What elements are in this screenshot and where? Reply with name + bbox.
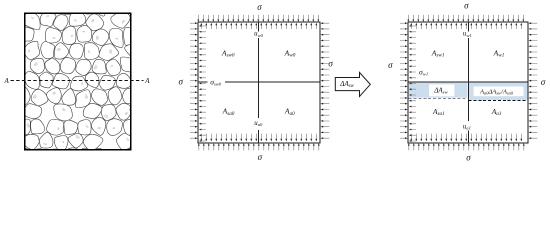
sigma label top (right square) bbox=[464, 0, 469, 10]
right square: soil element cross-sections, state 1 bbox=[408, 22, 528, 143]
internal pressure arrow comb under top edge (middle square) bbox=[200, 23, 317, 29]
sigma stress arrow comb, bottom outside (right square) bbox=[408, 143, 525, 150]
internal pressure arrow comb inside left edge (right square) bbox=[409, 25, 416, 142]
sigma stress arrow comb, right outside (right square) bbox=[529, 22, 538, 139]
label u_w0 bbox=[254, 31, 263, 38]
label u_a1 bbox=[463, 123, 471, 130]
sigma stress arrow comb, right outside (middle square) bbox=[321, 22, 330, 139]
label A_w1 bbox=[493, 49, 505, 59]
internal pressure arrow comb under top edge (right square) bbox=[410, 23, 522, 29]
svg-text:Asw1: Asw1 bbox=[431, 49, 445, 59]
svg-text:σ: σ bbox=[257, 2, 262, 12]
svg-text:σ: σ bbox=[541, 77, 546, 87]
label u_a0 bbox=[254, 120, 263, 127]
svg-text:Asw0: Asw0 bbox=[221, 49, 235, 59]
svg-text:σw1: σw1 bbox=[419, 67, 428, 76]
svg-text:σ: σ bbox=[388, 60, 393, 70]
svg-text:Aw0: Aw0 bbox=[284, 49, 296, 59]
svg-text:σ: σ bbox=[464, 0, 469, 10]
internal pressure arrow comb inside left edge (middle square) bbox=[199, 25, 206, 142]
sigma stress arrow comb, left outside (right square) bbox=[400, 22, 408, 139]
sigma label right (middle square) bbox=[328, 59, 333, 69]
svg-text:σ: σ bbox=[328, 59, 333, 69]
svg-text:Asa0: Asa0 bbox=[222, 107, 235, 117]
label sigma_w1 above mid-section bbox=[419, 67, 428, 76]
label delta A_sw in left band bbox=[433, 86, 448, 94]
svg-text:σsw0: σsw0 bbox=[210, 77, 222, 86]
sigma label right (right square) bbox=[541, 77, 546, 87]
left figure: box of soil grains bbox=[11, 0, 149, 170]
horizontal mid-section line (middle square) bbox=[198, 81, 320, 83]
sigma stress arrow comb, bottom outside (middle square) bbox=[198, 143, 320, 150]
label A_sa1 bbox=[432, 107, 445, 117]
label u_w1 bbox=[463, 31, 472, 38]
svg-text:σ: σ bbox=[258, 152, 263, 162]
blue band: area change right half bbox=[469, 82, 528, 100]
sigma label left (middle square) bbox=[178, 77, 183, 87]
svg-text:uw0: uw0 bbox=[254, 31, 263, 38]
svg-text:Asa1: Asa1 bbox=[432, 107, 445, 117]
block arrow delta A_sw between squares bbox=[335, 72, 370, 96]
label A_sw1 bbox=[431, 49, 445, 59]
svg-text:ua1: ua1 bbox=[463, 123, 471, 130]
label sigma_sw0 on mid-section bbox=[210, 77, 222, 86]
sigma label bottom (right square) bbox=[466, 152, 471, 162]
middle square: soil element cross-sections, state 0 bbox=[198, 22, 320, 143]
label A_a0 bbox=[284, 107, 295, 117]
svg-text:uw1: uw1 bbox=[463, 31, 472, 38]
label A_sa0 bbox=[222, 107, 235, 117]
svg-text:σ: σ bbox=[466, 152, 471, 162]
svg-text:Aw1: Aw1 bbox=[493, 49, 505, 59]
label A_w0 bbox=[284, 49, 296, 59]
sigma stress arrow comb, top outside (middle square) bbox=[197, 15, 319, 22]
internal pressure arrow comb above bottom edge (middle square) bbox=[200, 134, 317, 142]
blue band: area change left half (delta A_sw) bbox=[409, 82, 468, 98]
vertical mid-section line (right square) bbox=[467, 22, 469, 143]
vertical mid-section line (middle square) bbox=[258, 22, 260, 143]
label A_a0 delta A_sw / A_sa0 in right band bbox=[479, 88, 514, 95]
svg-text:σ: σ bbox=[178, 77, 183, 87]
svg-text:Aa0: Aa0 bbox=[284, 107, 295, 117]
label A_sw0 bbox=[221, 49, 235, 59]
svg-text:A: A bbox=[3, 77, 9, 85]
label A_a1 bbox=[491, 107, 502, 117]
sigma label bottom (middle square) bbox=[258, 152, 263, 162]
svg-text:A: A bbox=[144, 77, 150, 85]
internal pressure arrow comb above bottom edge (right square) bbox=[410, 134, 522, 142]
svg-text:Aa1: Aa1 bbox=[491, 107, 502, 117]
horizontal mid-section line (right square) bbox=[408, 81, 528, 83]
sigma label top (middle square) bbox=[257, 2, 262, 12]
sigma stress arrow comb, left outside (middle square) bbox=[190, 22, 198, 139]
sigma stress arrow comb, top outside (right square) bbox=[407, 15, 524, 22]
svg-text:ua0: ua0 bbox=[254, 120, 263, 127]
section line A-A bbox=[3, 77, 150, 85]
sigma label left (right square) bbox=[388, 60, 393, 70]
